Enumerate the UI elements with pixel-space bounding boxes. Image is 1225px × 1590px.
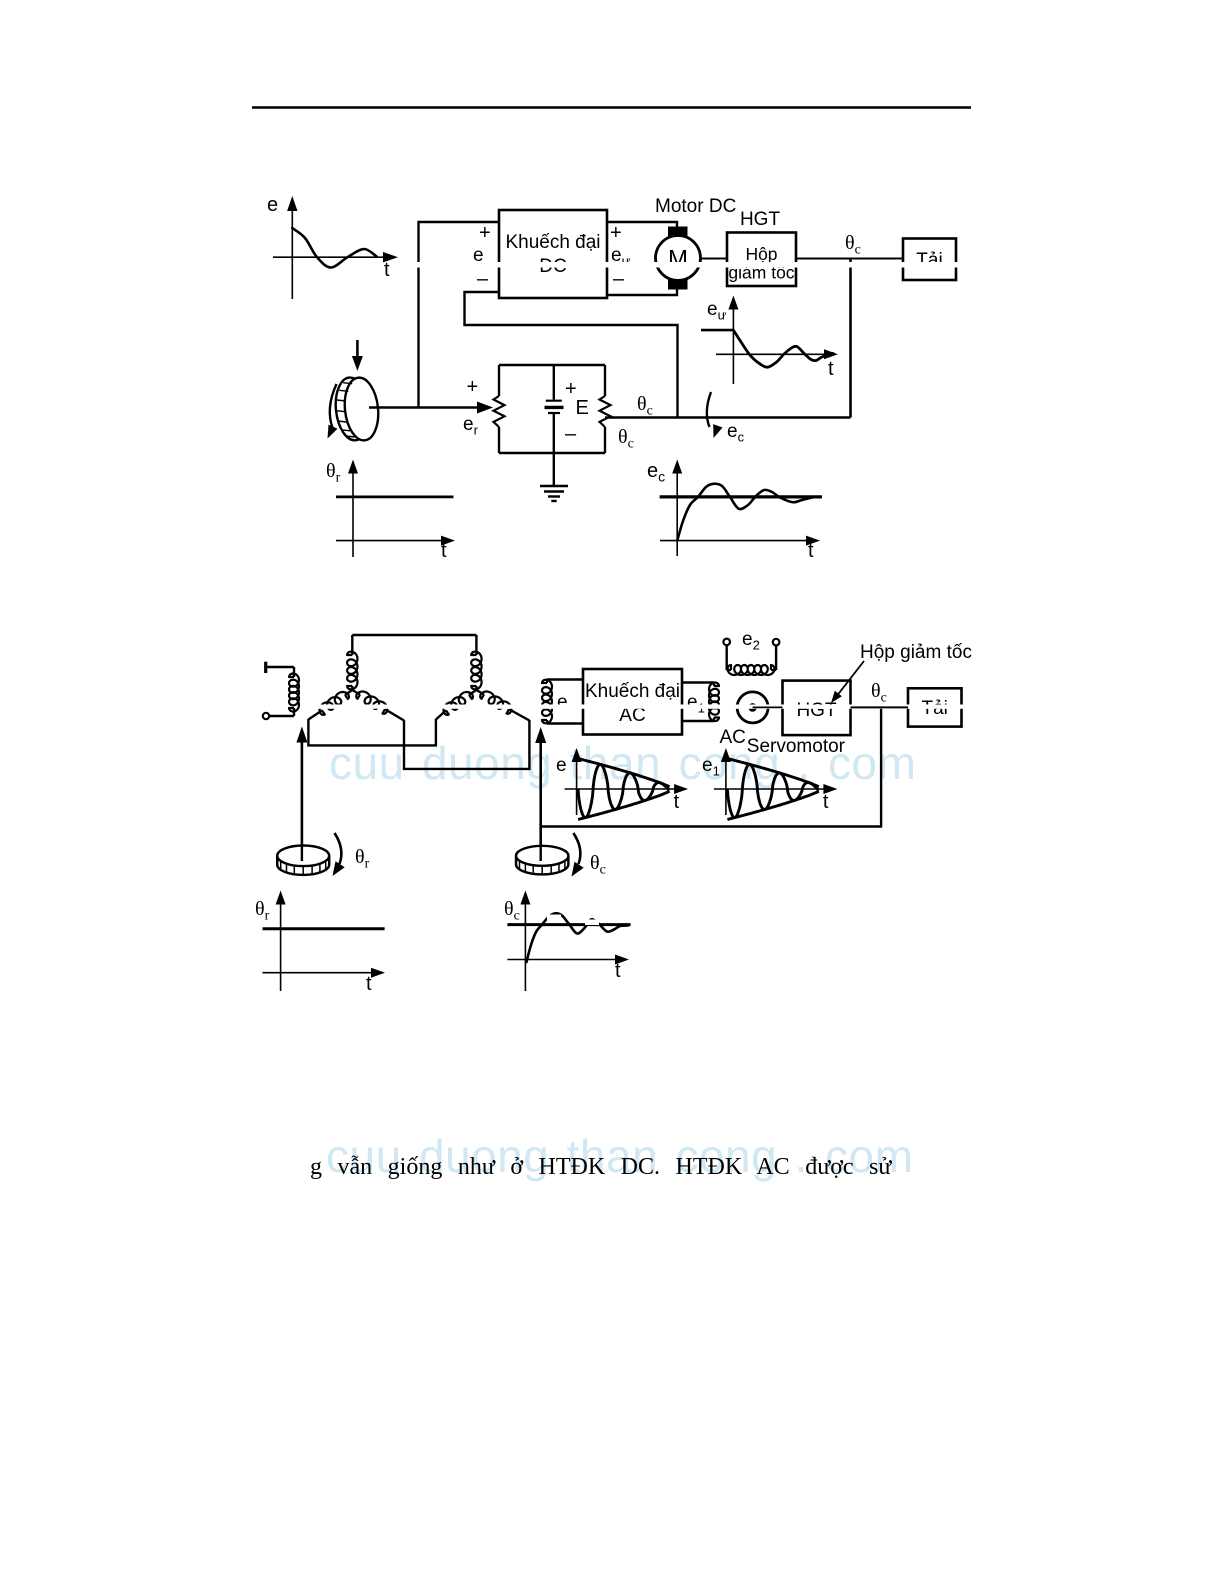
svg-text:t: t <box>441 540 447 562</box>
shaft motor to gearbox <box>701 258 728 260</box>
label + eu - at amplifier output <box>610 222 631 290</box>
synchro Y2 right winding <box>476 690 529 721</box>
svg-text:e: e <box>556 755 567 776</box>
output winding e1 <box>682 683 719 722</box>
plot theta_c(t) step response <box>504 891 631 992</box>
label + e - at amplifier input <box>473 222 491 290</box>
battery E <box>545 365 589 453</box>
svg-text:t: t <box>808 540 814 562</box>
load box Tai 2 <box>908 688 962 726</box>
shaft arrow theta_c feedback <box>535 727 546 860</box>
svg-text:Motor DC: Motor DC <box>655 196 736 217</box>
svg-text:–: – <box>565 423 577 445</box>
plot e(t) reference error waveform <box>267 194 398 299</box>
plot eu(t) armature voltage waveform <box>701 296 838 385</box>
wire amplifier output top to motor <box>607 222 677 227</box>
bridge top wire <box>499 364 605 366</box>
wire amplifier output bottom to motor <box>607 288 677 295</box>
label AC Servomotor <box>720 727 846 757</box>
input dial theta_r <box>277 833 369 876</box>
bridge bottom wire <box>499 452 605 454</box>
shaft arrow theta_r input <box>296 727 307 861</box>
svg-text:Hộp giảm tốc: Hộp giảm tốc <box>860 642 972 663</box>
synchro Y2 top winding <box>471 635 481 690</box>
load box Tai <box>903 239 956 281</box>
gearbox HGT box (Hop giam toc) <box>727 233 796 287</box>
white watermark stripe 3 <box>547 915 561 922</box>
synchro Y1 top winding <box>347 635 357 690</box>
svg-text:+: + <box>467 376 479 398</box>
reference dial knob theta_r <box>328 340 382 443</box>
svg-text:Hộp: Hộp <box>745 244 777 264</box>
wire bus S1 <box>308 719 436 745</box>
top rule <box>252 106 971 109</box>
svg-text:Khuếch đại: Khuếch đại <box>585 681 680 702</box>
op-amp block U2 Khuech dai AC <box>583 669 682 735</box>
wire servomotor shaft redraw <box>753 706 783 708</box>
svg-text:g vẫn giống như ở HTĐK DC. HTĐ: g vẫn giống như ở HTĐK DC. HTĐK AC được … <box>310 1154 892 1180</box>
motor DC M <box>656 227 701 290</box>
white watermark stripe 1 <box>413 262 1008 268</box>
plot theta_r(t) step input 2 <box>255 891 385 996</box>
svg-text:–: – <box>613 268 625 290</box>
plot ec(t) bridge output waveform <box>647 460 822 563</box>
control winding e2 with terminals <box>723 629 779 675</box>
svg-text:–: – <box>477 268 489 290</box>
synchro Y1 left winding <box>308 690 352 720</box>
wire e input to amplifier <box>419 221 500 223</box>
wire gearbox2-load redraw <box>851 706 909 708</box>
svg-text:t: t <box>366 973 372 995</box>
wire bus S3 <box>404 720 529 769</box>
AC servomotor <box>737 692 782 723</box>
label Hop giam toc with leader arrow <box>831 642 972 703</box>
wire gearbox2 to load2 <box>851 706 909 708</box>
svg-text:Tải: Tải <box>916 250 942 271</box>
svg-text:+: + <box>610 222 622 244</box>
svg-text:t: t <box>615 960 621 982</box>
svg-text:t: t <box>828 358 834 380</box>
synchro Y1 right winding <box>352 690 404 721</box>
feedback wire from amplifier negative input <box>465 292 678 418</box>
plot theta_r(t) step input <box>326 460 455 563</box>
svg-text:t: t <box>823 791 829 813</box>
svg-text:e: e <box>557 692 568 713</box>
gearbox HGT box 2 <box>783 681 851 736</box>
svg-text:Khuếch đại: Khuếch đại <box>505 232 600 253</box>
ground <box>540 453 568 501</box>
wire gearbox to load <box>796 258 903 260</box>
wire vertical from e input down to er line <box>417 221 419 408</box>
wire er input with arrow <box>369 376 493 438</box>
op-amp block U1 Khuech dai DC <box>499 210 607 298</box>
wire top bus S2 <box>352 634 476 636</box>
white watermark stripe 2 <box>300 705 1000 709</box>
svg-text:HGT: HGT <box>740 209 781 230</box>
svg-text:HGT: HGT <box>796 700 837 721</box>
excitation winding with terminals (left) <box>263 662 299 720</box>
svg-text:e: e <box>267 194 278 216</box>
synchro Y2 left winding <box>436 690 477 720</box>
svg-text:Servomotor: Servomotor <box>747 736 846 757</box>
svg-text:M: M <box>668 246 688 273</box>
rotation arrow e_c wiper <box>707 392 745 445</box>
plot e1(t) modulated amplified signal <box>702 748 837 820</box>
node junction shaft feedback <box>849 259 852 418</box>
svg-text:E: E <box>576 397 589 419</box>
svg-text:+: + <box>479 222 491 244</box>
potentiometer R2 right arm <box>600 365 611 453</box>
input transformer winding e to amplifier <box>542 680 583 724</box>
svg-text:t: t <box>674 791 680 813</box>
potentiometer R1 left arm <box>494 365 505 453</box>
feedback wire to control transformer <box>541 707 881 826</box>
svg-text:t: t <box>384 259 390 281</box>
wire bridge output theta_c <box>605 416 851 418</box>
svg-text:AC: AC <box>720 727 746 748</box>
plot e(t) modulated error signal <box>556 748 688 820</box>
output dial theta_c <box>516 833 606 878</box>
